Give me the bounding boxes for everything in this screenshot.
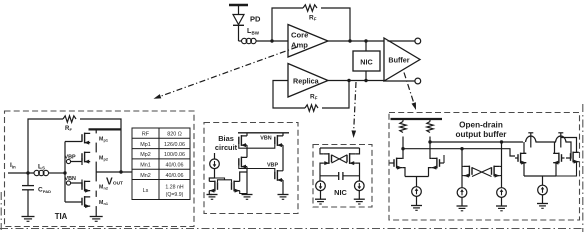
svg-text:Mn2: Mn2	[140, 173, 151, 179]
wire replica feedback right	[322, 79, 351, 108]
transistor Mp2	[82, 152, 96, 172]
resistor RL2	[427, 119, 433, 142]
node TIA gate bus	[63, 171, 66, 174]
svg-text:100/0.06: 100/0.06	[164, 152, 185, 158]
NIC block	[353, 51, 380, 71]
wire diff line upper	[428, 140, 523, 143]
outer dash-dot frame right	[582, 104, 584, 232]
label VBN	[65, 176, 76, 182]
svg-text:40/0.06: 40/0.06	[166, 173, 184, 179]
open-drain stub right	[558, 133, 563, 148]
svg-text:Replica: Replica	[293, 77, 320, 86]
wire core feedback left	[272, 8, 303, 41]
resistor RL1	[400, 119, 406, 149]
svg-text:1.28 nH: 1.28 nH	[165, 184, 183, 190]
inductor LS	[34, 170, 65, 175]
open-drain stub left	[528, 133, 533, 148]
svg-text:RF: RF	[309, 15, 317, 22]
label Iin	[10, 162, 16, 169]
bias dashed box	[204, 123, 298, 214]
wire TIA feedback	[28, 119, 63, 173]
label open-drain output buffer	[456, 121, 508, 140]
svg-text:Iin: Iin	[10, 162, 16, 169]
svg-text:VBP: VBP	[267, 163, 278, 169]
op-amp Core Amp	[288, 25, 328, 58]
outer dash-dot frame bottom	[0, 228, 584, 230]
svg-text:RF: RF	[65, 126, 73, 132]
transistor NIC left	[320, 148, 332, 181]
table device values	[132, 128, 190, 200]
TIA dashed box	[5, 111, 195, 227]
ground buffer 4	[537, 204, 548, 209]
wire cross pair right column	[501, 142, 503, 188]
svg-text:RF: RF	[142, 132, 150, 138]
resistor RF core feedback	[303, 5, 317, 11]
svg-text:NIC: NIC	[360, 58, 372, 67]
transistor Mn2	[82, 172, 96, 193]
svg-text:Mn1: Mn1	[99, 200, 108, 206]
svg-text:Mp1: Mp1	[140, 142, 151, 148]
supply bar output buffer	[391, 118, 443, 120]
label RF TIA	[65, 126, 73, 132]
ground buffer 1	[411, 206, 422, 211]
ground bias right	[278, 195, 289, 200]
node input of core amp	[270, 39, 273, 42]
svg-text:Core: Core	[291, 31, 308, 40]
current source bias	[210, 153, 220, 178]
ground under CPAD	[22, 217, 35, 222]
current source buffer 1	[412, 187, 422, 206]
label PD	[250, 15, 261, 24]
transistor buffer in right	[429, 142, 445, 177]
label NIC detail	[334, 188, 347, 197]
VDD rail bias	[238, 132, 289, 134]
wire input	[8, 171, 34, 174]
transistor bias M1	[209, 178, 217, 195]
ground NIC left	[315, 199, 326, 204]
output buffer dashed box	[389, 113, 580, 221]
svg-text:126/0.06: 126/0.06	[164, 142, 185, 148]
svg-text:LBW: LBW	[247, 28, 260, 36]
svg-text:(Q=9.9): (Q=9.9)	[166, 192, 184, 198]
VDD bar TIA	[89, 128, 121, 130]
wire NIC top stub	[365, 41, 367, 51]
wire cross pair left column	[461, 149, 463, 188]
wire VBP bus	[239, 166, 275, 172]
svg-text:Mp1: Mp1	[99, 137, 108, 143]
svg-text:Ls: Ls	[143, 188, 149, 194]
photodiode PD supply bar	[229, 4, 248, 6]
wire bias mirror gate	[215, 178, 232, 182]
wire TIA gate bus	[65, 142, 82, 203]
svg-text:820 Ω: 820 Ω	[167, 132, 182, 138]
label VBN bias	[260, 136, 271, 142]
wire diff line upper hops	[526, 136, 572, 158]
svg-text:circuit: circuit	[215, 143, 238, 152]
wire core feedback right	[321, 8, 352, 43]
label VOUT	[106, 177, 123, 188]
svg-text:NIC: NIC	[334, 188, 347, 197]
current source buffer 2	[457, 188, 467, 206]
label Mn1	[99, 200, 108, 206]
wire buffer tail 2	[524, 176, 556, 185]
transistor bias M4	[275, 133, 283, 171]
current source NIC right	[355, 181, 365, 199]
transistor bias M5	[239, 157, 247, 195]
wire NIC cross coupling	[332, 155, 348, 163]
label LBW	[247, 28, 260, 36]
current source buffer 3	[497, 188, 507, 206]
transistor bias M6	[275, 170, 283, 195]
label Mp1	[99, 137, 108, 143]
current source NIC left	[316, 181, 326, 199]
wire replica feedback	[273, 81, 305, 109]
svg-text:Mp2: Mp2	[140, 152, 151, 158]
wire diff line lower	[401, 147, 515, 156]
wire buffer tail 1	[405, 177, 429, 187]
ground buffer 2	[457, 206, 468, 211]
gate circle VBN	[66, 180, 82, 187]
resistor RF TIA	[63, 116, 76, 122]
svg-text:output buffer: output buffer	[456, 130, 508, 139]
transistor output device far right	[556, 138, 579, 177]
transistor buffer in left	[390, 149, 406, 177]
svg-text:CPAD: CPAD	[38, 187, 51, 194]
outer dash-dot frame left	[0, 192, 2, 230]
transistor NIC right	[347, 148, 360, 181]
arrow to TIA detail	[154, 47, 298, 99]
svg-text:VOUT: VOUT	[106, 177, 123, 188]
inductor LBW	[239, 38, 289, 43]
wire NIC top rail	[320, 147, 360, 149]
svg-text:PD: PD	[250, 15, 261, 24]
svg-text:VBP: VBP	[65, 155, 76, 161]
photodiode PD	[233, 5, 244, 41]
svg-text:VBN: VBN	[260, 136, 271, 142]
wire buffer output top	[388, 38, 421, 44]
svg-text:LS: LS	[38, 163, 45, 170]
ground NIC right	[354, 199, 365, 204]
svg-text:TIA: TIA	[55, 212, 68, 221]
wire replica output line	[328, 79, 384, 82]
wire TIA feedback right	[80, 119, 121, 172]
svg-text:Open-drain: Open-drain	[459, 121, 503, 130]
transistor bias M3	[239, 133, 247, 158]
transistor buffer out left	[515, 142, 526, 176]
current source buffer 4	[538, 185, 548, 203]
wire core output line	[328, 39, 384, 42]
label VBP	[65, 155, 76, 161]
svg-text:RF: RF	[310, 94, 318, 101]
label LS	[38, 163, 45, 170]
svg-text:VBN: VBN	[65, 176, 76, 182]
resistor RF replica	[305, 105, 318, 111]
transistor buffer out right	[553, 142, 564, 176]
wire TIA output	[96, 170, 131, 173]
capacitor NIC	[320, 172, 360, 180]
label Mp2	[99, 156, 108, 162]
label VBP bias	[267, 163, 278, 169]
transistor Mn1	[82, 191, 96, 217]
label RF core	[309, 15, 317, 22]
NIC dashed box	[313, 145, 372, 208]
transistor bias M2	[232, 172, 248, 194]
arrow to NIC detail	[352, 82, 357, 138]
label RF replica	[310, 94, 318, 101]
arrow to output buffer detail	[404, 73, 416, 111]
ground buffer 3	[496, 206, 507, 211]
ground bias left	[207, 195, 218, 200]
capacitor CPAD	[22, 173, 34, 217]
svg-text:Mn1: Mn1	[140, 163, 151, 169]
transistor Mp1	[82, 129, 96, 152]
label TIA	[55, 212, 68, 221]
svg-text:40/0.06: 40/0.06	[166, 163, 184, 169]
svg-text:Mp2: Mp2	[99, 156, 108, 162]
wire NIC bottom stub	[365, 71, 367, 81]
op-amp Buffer	[384, 38, 420, 81]
gate circle VBP	[66, 158, 82, 165]
wire cross coupling buffer	[472, 168, 492, 177]
label CPAD	[38, 187, 51, 194]
label Bias circuit	[215, 134, 238, 152]
op-amp Replica	[288, 64, 328, 98]
transistor cross right	[492, 166, 502, 178]
wire buffer output bottom	[384, 78, 421, 84]
label Mn2	[99, 185, 108, 191]
wire VBN bus	[239, 144, 275, 148]
ground bias mid	[242, 195, 253, 200]
transistor cross left	[462, 166, 472, 178]
ground under Mn1	[90, 217, 103, 222]
svg-text:Buffer: Buffer	[388, 56, 409, 65]
svg-text:Bias: Bias	[218, 134, 234, 143]
